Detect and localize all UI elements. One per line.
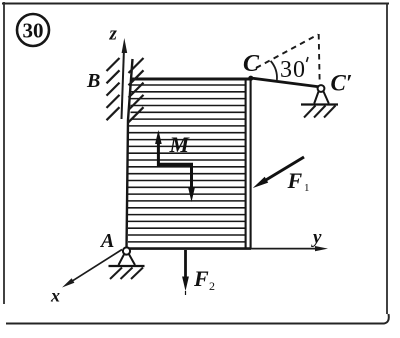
svg-text:F: F — [287, 168, 303, 193]
svg-text:x: x — [50, 286, 60, 306]
svg-text:A: A — [99, 230, 114, 252]
svg-text:C: C — [243, 51, 260, 77]
svg-text:F: F — [193, 266, 209, 291]
svg-text:z: z — [109, 24, 118, 45]
svg-text:30: 30 — [280, 57, 306, 83]
svg-text:y: y — [311, 227, 322, 248]
svg-text:C′: C′ — [331, 71, 353, 96]
svg-text:2: 2 — [209, 279, 215, 293]
svg-text:1: 1 — [304, 182, 310, 194]
svg-text:30: 30 — [23, 19, 44, 43]
svg-text:B: B — [86, 70, 100, 92]
svg-text:M: M — [169, 132, 191, 157]
